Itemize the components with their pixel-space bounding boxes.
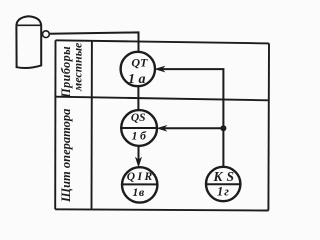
svg-text:KS: KS — [212, 169, 238, 184]
wire bottom border — [55, 209, 268, 210]
junction dot — [220, 125, 226, 131]
svg-text:QS: QS — [131, 112, 146, 124]
svg-text:QT: QT — [131, 56, 148, 70]
svg-text:1в: 1в — [132, 185, 145, 199]
tank (process vessel) — [16, 16, 41, 68]
svg-text:1г: 1г — [217, 184, 230, 198]
wire feedback QT branch — [160, 69, 224, 167]
svg-text:1а: 1а — [128, 72, 149, 87]
arrowhead into QT — [155, 66, 164, 71]
instrument bubble QIR — [122, 167, 157, 202]
wire sensor to QT — [49, 32, 138, 52]
wire QS to QIR with down arrow — [138, 146, 140, 161]
instrument bubble QT — [121, 52, 155, 86]
table: outer frame and dividers — [55, 40, 269, 210]
arrowhead into QS — [157, 126, 166, 131]
wire column divider — [91, 41, 93, 210]
svg-text:QIR: QIR — [127, 171, 155, 183]
svg-text:1б: 1б — [132, 128, 149, 142]
wire right border — [267, 43, 270, 210]
instrument bubble QS — [121, 110, 157, 146]
label row1: Приборы местные (rotated) — [59, 42, 85, 99]
wire left border — [54, 40, 56, 209]
arrowhead into QIR (down) — [136, 158, 142, 167]
instrument bubble KS — [206, 167, 240, 201]
wire QT to QS — [137, 86, 139, 110]
wire top border — [56, 40, 270, 43]
wire branch to QS — [161, 127, 223, 129]
svg-text:Щит оператора: Щит оператора — [59, 109, 73, 203]
wire row divider — [55, 97, 269, 101]
sensor (primary element on tank wall) — [43, 31, 50, 38]
svg-text:местные: местные — [71, 42, 85, 92]
